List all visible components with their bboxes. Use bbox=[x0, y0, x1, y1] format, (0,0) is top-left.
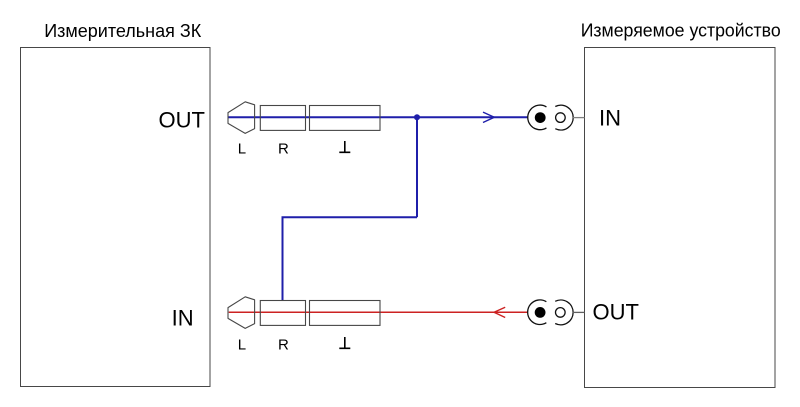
connector: RCA socket hole lower bbox=[556, 308, 566, 318]
jack plug J1 tip (L) upper bbox=[228, 102, 255, 134]
wire: blue branch vertical down from junction bbox=[416, 117, 418, 217]
jack plug J1 ring (R) upper bbox=[260, 106, 305, 131]
svg-text:L: L bbox=[238, 336, 246, 353]
wire: blue branch vertical down to R contact of lower jack bbox=[282, 217, 284, 301]
connector: RCA plug center pin lower (filled dot) bbox=[535, 307, 546, 318]
connector: RCA plug center pin upper (filled dot) bbox=[535, 112, 546, 123]
connector: RCA plug shell lower (arc open right) bbox=[528, 300, 547, 325]
svg-text:Измерительная ЗК: Измерительная ЗК bbox=[44, 21, 202, 41]
jack plug J2 sleeve (ground) lower bbox=[310, 301, 381, 326]
wire: stub from RCA socket to device IN bbox=[573, 117, 585, 119]
wire: stub from RCA socket to device OUT bbox=[573, 311, 585, 313]
connector: RCA socket hole upper bbox=[556, 113, 566, 123]
connector: RCA plug shell upper (arc open right) bbox=[528, 105, 547, 130]
box: measured device (Измеряемое устройство) bbox=[585, 48, 776, 388]
connector: RCA socket shell upper (arc open left) bbox=[555, 105, 573, 130]
svg-text:R: R bbox=[278, 140, 289, 157]
wire: blue branch horizontal left bbox=[282, 216, 418, 218]
pin label ground symbol upper bbox=[339, 141, 350, 152]
svg-text:L: L bbox=[238, 140, 246, 157]
jack plug J2 ring (R) lower bbox=[260, 301, 305, 326]
wire: blue signal OUT horizontal bbox=[228, 116, 528, 118]
svg-text:IN: IN bbox=[172, 306, 194, 331]
wire: red return signal horizontal bbox=[229, 311, 528, 313]
node: junction on blue wire bbox=[414, 114, 420, 120]
svg-text:R: R bbox=[278, 336, 289, 353]
connector: RCA socket shell lower (arc open left) bbox=[555, 300, 573, 325]
svg-text:OUT: OUT bbox=[593, 300, 639, 325]
box: measuring sound card (Измерительная ЗК) bbox=[21, 48, 211, 387]
arrow: blue signal direction right bbox=[483, 112, 494, 122]
jack plug J1 sleeve (ground) upper bbox=[310, 106, 381, 131]
jack plug J2 tip (L) lower bbox=[228, 297, 255, 329]
svg-text:IN: IN bbox=[599, 105, 621, 130]
svg-text:OUT: OUT bbox=[159, 108, 205, 133]
pin label ground symbol lower bbox=[339, 337, 350, 348]
svg-text:Измеряемое устройство: Измеряемое устройство bbox=[581, 21, 781, 41]
arrow: red signal direction left bbox=[494, 307, 505, 317]
